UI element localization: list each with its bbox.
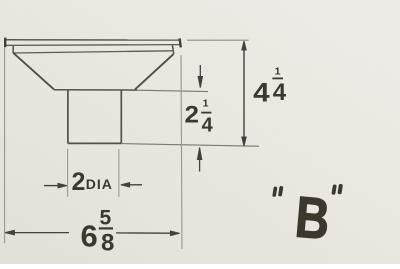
svg-text:4: 4 <box>202 114 214 136</box>
2 DIA right arrow <box>121 183 142 187</box>
2 DIA left extension line <box>67 149 69 197</box>
rim top line <box>5 39 180 41</box>
svg-text:B: B <box>293 184 333 252</box>
6 5/8 label <box>81 207 115 257</box>
right slope of cone <box>135 54 174 89</box>
2 1/4 label <box>185 98 214 137</box>
6 5/8 right extension line <box>181 55 182 249</box>
svg-text:2: 2 <box>72 168 86 196</box>
inner rim line <box>13 51 172 53</box>
6 5/8 left arrow <box>5 230 69 235</box>
inner lip left vertical <box>12 45 14 53</box>
svg-text:6: 6 <box>81 218 98 253</box>
stem left edge <box>67 90 69 143</box>
extension line right of cone bottom <box>137 90 208 91</box>
svg-text:1: 1 <box>275 66 281 78</box>
4 1/4 top extension line <box>187 39 249 41</box>
quoted B mark <box>272 184 343 252</box>
2 DIA right extension line <box>118 149 120 197</box>
2 DIA left arrow <box>44 183 67 187</box>
2 DIA label <box>72 168 113 196</box>
svg-text:4: 4 <box>273 79 287 106</box>
svg-text:5: 5 <box>100 207 112 230</box>
left slope of cone <box>13 53 54 90</box>
inner lip right vertical <box>172 45 173 54</box>
4 1/4 dimension line with arrows <box>242 41 246 146</box>
svg-text:2: 2 <box>185 101 200 128</box>
stem right edge <box>120 90 122 143</box>
6 5/8 right arrow <box>116 231 180 236</box>
svg-text:8: 8 <box>101 230 114 257</box>
cone bottom line <box>54 89 137 91</box>
rim right cap <box>180 38 181 47</box>
extension line right of stem bottom <box>121 144 259 147</box>
svg-text:DIA: DIA <box>86 176 113 192</box>
rim bottom line <box>5 44 180 47</box>
6 5/8 left extension line <box>4 48 6 244</box>
stem bottom line <box>68 142 121 144</box>
4 1/4 label <box>253 66 287 108</box>
2 1/4 top arrow <box>198 65 202 88</box>
2 1/4 bottom arrow <box>197 148 201 172</box>
svg-text:1: 1 <box>203 98 209 110</box>
rim left cap <box>4 38 6 48</box>
svg-text:4: 4 <box>253 77 270 107</box>
